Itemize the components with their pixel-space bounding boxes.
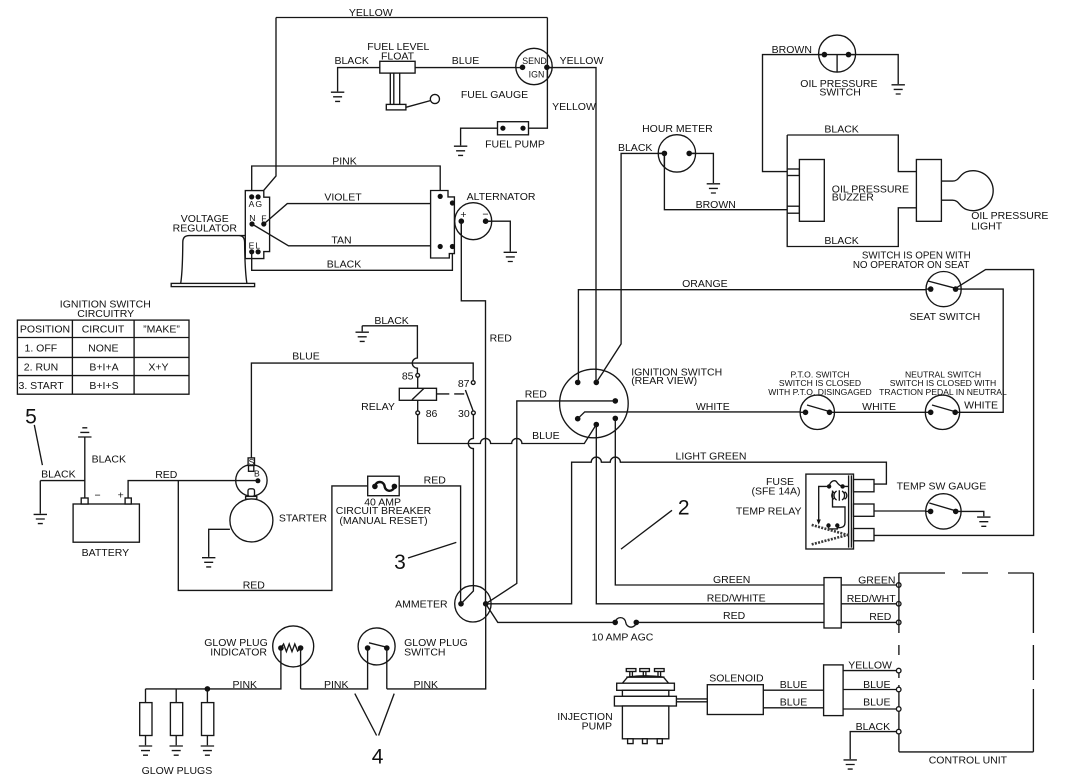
wire green ignition to control unit: [615, 418, 824, 585]
relay contact arm: [465, 390, 473, 411]
ground (alternator): [504, 252, 517, 261]
svg-text:3: 3: [394, 551, 406, 574]
svg-text:(MANUAL RESET): (MANUAL RESET): [339, 515, 427, 527]
wire into temp gauge left dot: [926, 510, 931, 512]
svg-text:LIGHT GREEN: LIGHT GREEN: [676, 451, 747, 463]
svg-text:PINK: PINK: [324, 679, 349, 691]
fuel pump: [498, 122, 529, 135]
pin 86: [416, 411, 420, 415]
control unit terminal red: [896, 620, 901, 625]
svg-text:(REAR VIEW): (REAR VIEW): [631, 375, 697, 387]
temp relay internal contacts: [826, 523, 839, 529]
alternator U: [455, 203, 492, 240]
wire white seat switch to neutral switch: [955, 289, 1003, 412]
ground (starter): [202, 558, 215, 567]
svg-text:TAN: TAN: [331, 235, 351, 247]
oil pressure light bulb: [942, 171, 994, 211]
svg-text:GREEN: GREEN: [858, 575, 895, 587]
wire battery minus to frame ground: [84, 437, 86, 498]
temp relay internal coil: [832, 490, 847, 528]
pin 85: [416, 373, 420, 377]
svg-text:3. START: 3. START: [19, 380, 65, 392]
svg-text:TEMP RELAY: TEMP RELAY: [736, 506, 802, 518]
starter solenoid S terminal: [248, 457, 255, 471]
wire pink regulator AG to connector: [252, 166, 441, 197]
wire into oil pressure switch right dot: [849, 54, 856, 56]
pin N: [249, 213, 255, 227]
callout 5 line: [34, 425, 42, 465]
glow plug 3: [202, 689, 214, 745]
wire blue relay to starter S: [251, 363, 473, 458]
wire red fuse to connector: [636, 621, 824, 623]
wire orange ignition to seat switch: [578, 290, 930, 383]
svg-text:WHITE: WHITE: [696, 401, 730, 413]
ground (glow plug 3): [201, 746, 214, 755]
wire into alternator minus dot: [486, 220, 492, 222]
wire black buzzer top loop: [787, 135, 916, 172]
svg-text:CIRCUIT: CIRCUIT: [82, 324, 125, 336]
wire red battery plus to starter B: [128, 481, 258, 498]
svg-text:RED: RED: [243, 579, 266, 591]
svg-text:BATTERY: BATTERY: [82, 547, 129, 559]
wire yellow through fuel gauge ign dot: [547, 54, 552, 79]
circuit breaker CB1 40A: [368, 476, 400, 496]
wire red into starter B dot: [236, 480, 258, 482]
wire orange into seat switch left dot: [926, 288, 931, 290]
ground (temp gauge): [977, 517, 990, 526]
ground (fuel sender): [331, 92, 344, 101]
pin AG: [249, 194, 263, 209]
svg-text:NO OPERATOR ON SEAT: NO OPERATOR ON SEAT: [853, 260, 970, 271]
temp relay contact bar: [849, 475, 852, 547]
svg-text:ALTERNATOR: ALTERNATOR: [467, 191, 536, 203]
svg-text:RED: RED: [869, 611, 892, 623]
wire brown oil switch to buzzer: [763, 55, 825, 172]
wire pink ammeter to glow plugs: [146, 604, 486, 689]
svg-text:GREEN: GREEN: [713, 574, 750, 586]
wire blue float to gauge: [415, 67, 522, 69]
fuse 10 AMP AGC: [612, 618, 639, 628]
svg-text:YELLOW: YELLOW: [560, 55, 604, 67]
wire black ground to relay pin 85: [362, 326, 417, 374]
svg-text:FUEL GAUGE: FUEL GAUGE: [461, 89, 528, 101]
wire pin 30 to ammeter: [461, 415, 473, 604]
svg-text:BLUE: BLUE: [532, 430, 559, 442]
fuel gauge: [516, 48, 552, 84]
svg-text:HOUR METER: HOUR METER: [642, 123, 713, 135]
control unit terminal red/wht: [896, 602, 901, 607]
wire brown into oil pressure switch left dot: [819, 54, 825, 56]
svg-text:BLACK: BLACK: [41, 469, 75, 481]
svg-text:REGULATOR: REGULATOR: [173, 222, 238, 234]
svg-text:BLACK: BLACK: [327, 258, 361, 270]
PTO switch: [800, 395, 834, 429]
wire white into PTO left dot: [800, 411, 806, 413]
svg-text:86: 86: [426, 408, 438, 420]
wire ignition red into ammeter right dot: [486, 600, 492, 604]
temp relay terminal tab top: [854, 480, 875, 492]
svg-text:RED: RED: [424, 475, 447, 487]
ground (battery negative): [34, 514, 47, 523]
ground (fuel pump): [454, 146, 467, 155]
svg-text:−: −: [95, 490, 101, 502]
wire violet F to alternator connector: [264, 203, 453, 224]
battery: [73, 490, 139, 543]
wire yellow top (ignition feed): [258, 18, 547, 197]
harness connector lower: [824, 665, 844, 716]
harness connector upper: [824, 578, 841, 628]
wire fuel pump ground lead: [461, 128, 498, 145]
wire light green ammeter to temp relay: [486, 457, 887, 604]
svg-text:FLOAT: FLOAT: [381, 51, 415, 63]
svg-text:1. OFF: 1. OFF: [25, 342, 58, 354]
wire pin85 to coil: [417, 377, 419, 388]
wire red alternator plus to ammeter: [461, 221, 485, 604]
ground (glow plug 2): [170, 746, 183, 755]
svg-text:10 AMP AGC: 10 AMP AGC: [592, 632, 654, 644]
starter solenoid: [236, 465, 267, 496]
wire coil to pin 86: [417, 400, 419, 411]
wire blue into fuel gauge send dot: [516, 67, 523, 69]
voltage regulator connector strip: [245, 191, 269, 259]
wire blue solenoid to control unit 2: [763, 708, 896, 709]
wire temp relay to temp gauge: [874, 510, 931, 512]
starter neck: [246, 489, 257, 499]
wire black buzzer bottom loop: [787, 135, 916, 247]
wire yellow connector to control unit: [843, 670, 896, 672]
wire brown from hour meter left dot: [663, 153, 665, 167]
ignition switch circuitry table: [17, 320, 189, 394]
pin 30: [472, 411, 476, 415]
temp relay internal fuse SFE 14A: [827, 481, 849, 489]
glow plug indicator: [273, 626, 314, 667]
svg-text:PINK: PINK: [332, 155, 357, 167]
wire pin 30 into ammeter left dot: [461, 586, 473, 604]
wire yellow gauge to ignition switch: [547, 68, 596, 383]
temp relay terminal tab middle: [854, 504, 875, 516]
ground (hour meter): [707, 184, 720, 193]
ground (oil pressure switch): [892, 85, 905, 94]
control unit box (dashed): [899, 573, 1034, 752]
callout 3 line: [408, 542, 456, 558]
temp relay box: [806, 474, 854, 549]
svg-text:TEMP SW GAUGE: TEMP SW GAUGE: [897, 481, 987, 493]
relay contact fixed: [437, 393, 465, 395]
svg-text:BLUE: BLUE: [863, 696, 890, 708]
svg-text:IGN: IGN: [529, 70, 545, 80]
svg-text:YELLOW: YELLOW: [848, 660, 892, 672]
wire red/wht ignition to control unit: [596, 425, 824, 604]
wire tan N to alternator connector: [252, 224, 440, 246]
control unit terminal blue 1: [896, 687, 901, 692]
ground (relay): [356, 332, 369, 341]
wire breaker into ammeter left dot: [460, 590, 462, 604]
relay coil box: [399, 388, 436, 400]
svg-text:RED: RED: [525, 389, 548, 401]
svg-text:FUEL PUMP: FUEL PUMP: [485, 138, 545, 150]
wire seat switch to temp relay: [874, 270, 1034, 536]
wire pink into glow plug indicator dots: [281, 648, 301, 666]
fuel level float: [380, 61, 440, 110]
svg-text:TRACTION PEDAL IN NEUTRAL: TRACTION PEDAL IN NEUTRAL: [879, 387, 1007, 397]
svg-text:BLUE: BLUE: [863, 679, 890, 691]
svg-text:SWITCH: SWITCH: [819, 86, 860, 98]
svg-text:BLUE: BLUE: [780, 679, 807, 691]
wire black control unit to ground: [850, 732, 896, 760]
wire white ignition to PTO switch: [578, 412, 806, 419]
svg-text:RED/WHT: RED/WHT: [847, 593, 897, 605]
glow plug 1: [140, 689, 152, 745]
svg-text:2: 2: [678, 497, 690, 520]
wire black battery negative: [40, 481, 85, 514]
svg-text:WHITE: WHITE: [862, 401, 896, 413]
pin 87: [471, 381, 475, 385]
link injection pump to solenoid: [670, 699, 707, 702]
svg-text:2. RUN: 2. RUN: [24, 362, 58, 374]
svg-text:85: 85: [402, 370, 414, 382]
wire pink into glow plug switch dots: [368, 648, 387, 663]
wire black hour meter to ignition switch: [596, 153, 664, 382]
starter motor: [230, 499, 273, 542]
wire yellow into ignition top-right dot: [595, 369, 597, 382]
svg-text:BLACK: BLACK: [824, 235, 858, 247]
wire black fuel sender ground lead: [338, 68, 380, 92]
wire white into neutral left dot: [925, 411, 931, 413]
temp relay internal armature wire with arrow: [817, 486, 830, 524]
svg-text:LIGHT: LIGHT: [971, 221, 1003, 233]
callout 4 lines: [355, 694, 394, 736]
svg-text:BLACK: BLACK: [824, 123, 858, 135]
neutral switch: [925, 395, 959, 429]
glow plug switch: [358, 628, 395, 665]
svg-text:INDICATOR: INDICATOR: [210, 647, 267, 659]
wire starter to ground: [209, 529, 230, 557]
alternator connector strip: [431, 191, 455, 259]
svg-text:BLACK: BLACK: [92, 454, 126, 466]
svg-text:POSITION: POSITION: [20, 324, 70, 336]
wire temp gauge to ground: [956, 511, 984, 516]
wire red branch to circuit breaker: [178, 481, 367, 591]
wire hour meter to ground: [689, 153, 713, 183]
alternator connector pins: [438, 194, 455, 249]
wire red ignition to ammeter: [486, 401, 616, 604]
wire red from alternator plus dot: [460, 221, 462, 235]
svg-text:AG: AG: [249, 199, 263, 209]
svg-text:+: +: [118, 490, 124, 502]
svg-text:4: 4: [372, 746, 384, 769]
svg-text:YELLOW: YELLOW: [349, 7, 393, 19]
oil pressure light socket: [916, 160, 941, 222]
wire blue ignition to relay 87 and starter S: [418, 415, 597, 444]
pin F: [261, 213, 266, 226]
svg-text:RED: RED: [723, 610, 746, 622]
wire red ammeter to 10A fuse: [486, 604, 616, 623]
svg-text:SEND: SEND: [522, 56, 546, 66]
temp sw gauge: [926, 494, 961, 529]
svg-text:PUMP: PUMP: [582, 721, 612, 733]
wire oil switch to ground: [849, 55, 899, 84]
svg-text:87: 87: [458, 378, 470, 390]
wire black into hour meter left dot: [658, 152, 664, 154]
svg-text:RED/WHITE: RED/WHITE: [707, 593, 766, 605]
svg-text:WHITE: WHITE: [964, 400, 998, 412]
svg-text:X+Y: X+Y: [148, 362, 168, 374]
control unit terminal blue 2: [896, 707, 901, 712]
svg-text:BLUE: BLUE: [292, 350, 319, 362]
svg-text:BUZZER: BUZZER: [832, 192, 874, 204]
svg-text:BROWN: BROWN: [696, 199, 736, 211]
glow plug junction: [205, 686, 211, 692]
control unit terminal yellow: [896, 668, 901, 673]
starter B terminal dot: [255, 478, 260, 483]
svg-text:N: N: [249, 213, 255, 223]
svg-text:RED: RED: [155, 469, 178, 481]
control unit terminal green: [896, 583, 901, 588]
svg-text:RELAY: RELAY: [361, 401, 395, 413]
wire white PTO to neutral switch: [830, 411, 931, 413]
wire black EL to alternator connector: [252, 247, 453, 271]
wire hour meter diagonal into ignition top-right dot: [596, 371, 604, 383]
svg-text:BLUE: BLUE: [780, 696, 807, 708]
svg-text:B+I+S: B+I+S: [89, 380, 118, 392]
oil pressure buzzer: [799, 160, 824, 222]
ammeter: [455, 586, 491, 622]
svg-text:30: 30: [458, 408, 470, 420]
svg-text:ORANGE: ORANGE: [682, 278, 728, 290]
oil pressure buzzer terminals: [787, 169, 799, 176]
svg-text:PINK: PINK: [233, 679, 258, 691]
wire red/wht connector to control unit: [841, 603, 896, 605]
svg-text:WITH P.T.O. DISINGAGED: WITH P.T.O. DISINGAGED: [768, 387, 871, 397]
svg-text:YELLOW: YELLOW: [552, 101, 596, 113]
temp relay bimetal springs: [812, 525, 849, 545]
svg-text:RED: RED: [490, 333, 513, 345]
svg-text:CIRCUITRY: CIRCUITRY: [77, 308, 134, 320]
wire into hour meter right dot: [689, 152, 696, 154]
svg-text:STARTER: STARTER: [279, 513, 327, 525]
wire blue solenoid to control unit 1: [763, 689, 896, 692]
temp relay terminal tab bottom: [854, 529, 875, 541]
wire red alternator into ammeter right dot: [485, 591, 487, 604]
svg-text:B: B: [254, 469, 260, 479]
svg-text:SEAT SWITCH: SEAT SWITCH: [909, 311, 980, 323]
wire white into neutral right dot: [955, 411, 960, 413]
svg-text:VIOLET: VIOLET: [324, 191, 362, 203]
wire red connector to control unit: [841, 621, 896, 623]
svg-text:BLACK: BLACK: [334, 55, 368, 67]
ground (glow plug 1): [139, 746, 152, 755]
solenoid: [707, 685, 763, 715]
oil pressure switch: [819, 35, 856, 72]
svg-text:CONTROL UNIT: CONTROL UNIT: [929, 755, 1008, 767]
ignition switch (rear view): [560, 369, 629, 438]
injection pump: [614, 669, 676, 744]
wire red breaker to ammeter: [399, 486, 460, 604]
svg-text:(SFE 14A): (SFE 14A): [751, 486, 800, 498]
seat switch: [926, 272, 961, 307]
svg-text:EL: EL: [249, 241, 262, 251]
pin EL: [249, 241, 262, 255]
wire ign terminal to fuel pump: [529, 67, 548, 128]
voltage regulator body: [171, 236, 254, 287]
svg-text:5: 5: [25, 405, 37, 428]
wire green connector to control unit: [841, 584, 896, 586]
svg-text:B+I+A: B+I+A: [89, 362, 118, 374]
svg-text:NONE: NONE: [88, 342, 118, 354]
svg-text:SWITCH: SWITCH: [404, 647, 445, 659]
wire orange into ignition top-left dot: [577, 373, 579, 383]
ground (control unit): [844, 760, 857, 769]
svg-text:AMMETER: AMMETER: [395, 599, 448, 611]
hour meter: [658, 135, 695, 172]
svg-text:BLUE: BLUE: [452, 55, 479, 67]
svg-text:GLOW PLUGS: GLOW PLUGS: [142, 765, 213, 777]
control unit terminal black: [896, 729, 901, 734]
wire light green from ammeter right dot: [486, 603, 492, 605]
ground (battery top, inverted): [78, 428, 91, 437]
wire brown hour meter to buzzer: [664, 153, 787, 209]
svg-text:BLACK: BLACK: [618, 142, 652, 154]
svg-text:SOLENOID: SOLENOID: [709, 673, 764, 685]
callout 2 line: [621, 510, 672, 549]
svg-text:PINK: PINK: [414, 679, 439, 691]
svg-text:”MAKE”: ”MAKE”: [143, 324, 180, 336]
wire alternator minus to ground: [486, 221, 511, 251]
glow plug 2: [170, 689, 182, 745]
